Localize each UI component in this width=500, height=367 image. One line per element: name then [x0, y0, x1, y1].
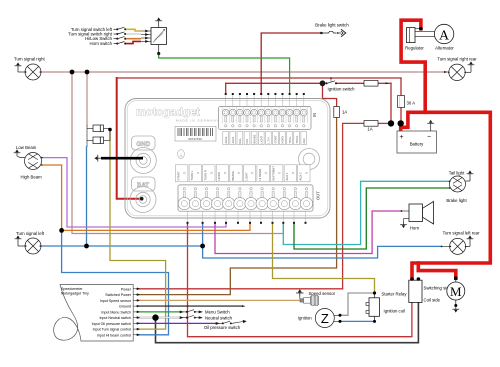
- svg-text:Brake light: Brake light: [446, 198, 467, 203]
- m-unit body: [125, 99, 330, 219]
- m-button input leads: [141, 30, 151, 42]
- svg-text:L.T.H: L.T.H: [267, 137, 271, 143]
- GND heavy wire: [101, 157, 143, 160]
- GND terminal: [130, 136, 156, 174]
- wire: magenta horn: [215, 211, 402, 254]
- wire: switched power brown from fuse down to bubble: [137, 118, 337, 295]
- svg-text:Starter Relay: Starter Relay: [381, 292, 407, 297]
- wire: thick red starter motor branch: [418, 263, 456, 278]
- svg-text:START: START: [274, 135, 278, 144]
- lamp: head light low/high: [14, 145, 43, 180]
- svg-text:Input Neutral switch: Input Neutral switch: [99, 316, 131, 320]
- regulator: [405, 27, 434, 51]
- wire: olive ignition coil: [273, 223, 375, 293]
- fuse 1A vertical: [334, 107, 340, 118]
- wire: cyan tail light: [283, 181, 449, 244]
- svg-text:AUX: AUX: [302, 138, 306, 144]
- svg-text:TRN R: TRN R: [295, 135, 299, 143]
- wire: battery bus upper dark red y78: [117, 77, 401, 79]
- svg-text:Power: Power: [121, 287, 132, 291]
- svg-text:Input Hi beam control: Input Hi beam control: [97, 333, 131, 337]
- wire: 1A fuse to speedo power red: [343, 123, 364, 288]
- svg-text:OUT: OUT: [316, 191, 321, 200]
- svg-text:HORN: HORN: [217, 172, 221, 180]
- wire: ignition switched bus y83.3: [226, 82, 323, 84]
- svg-text:Speedometer: Speedometer: [61, 287, 83, 291]
- wire: blue from Z to coil minus: [340, 320, 375, 322]
- starter relay: [381, 277, 451, 303]
- svg-text:Horn: Horn: [410, 226, 420, 231]
- oil pressure switch: [216, 320, 246, 324]
- lamp: turn signal left rear: [441, 231, 480, 255]
- speed sensor: [296, 289, 336, 305]
- junction dot turn-right bus B: [85, 70, 90, 75]
- wire: hi beam control blue tap: [62, 230, 169, 334]
- lamp: turn signal right front: [14, 57, 45, 81]
- svg-text:TURN L: TURN L: [190, 170, 194, 181]
- wire: after ignition switch to fuse: [336, 82, 364, 84]
- svg-text:IGN: IGN: [245, 139, 249, 144]
- wire: drop through 30A fuse: [400, 78, 402, 96]
- junction dot turn-right bus A: [70, 70, 75, 75]
- svg-text:Horn switch: Horn switch: [90, 41, 113, 46]
- fuse ignition: [364, 81, 378, 87]
- wire: ground black row: [137, 305, 242, 307]
- svg-text:Ground: Ground: [119, 305, 131, 309]
- switch symbols for cluster: [114, 27, 126, 44]
- wire: bus to BAT terminal: [117, 78, 142, 199]
- svg-text:M: M: [450, 284, 462, 299]
- svg-text:HORN: HORN: [281, 136, 285, 144]
- wire: thick battery red: [401, 112, 491, 279]
- wire: green brake light: [294, 188, 450, 249]
- svg-text:Input Oil pressure switch: Input Oil pressure switch: [92, 322, 131, 326]
- svg-text:Regulator: Regulator: [405, 46, 424, 51]
- svg-text:KILL: KILL: [238, 138, 242, 144]
- IN terminal block: [219, 93, 318, 145]
- junction dot ignition bus: [320, 80, 326, 86]
- svg-text:motogadget: motogadget: [136, 107, 200, 119]
- battery: [397, 120, 437, 153]
- svg-text:Neutral switch: Neutral switch: [205, 315, 233, 320]
- svg-text:Coil side: Coil side: [424, 298, 441, 303]
- lamp: turn signal left front: [15, 231, 45, 254]
- alternator: [434, 24, 454, 50]
- svg-text:High Beam: High Beam: [21, 175, 43, 180]
- wire: brake light switch dark red: [261, 33, 320, 94]
- wire: gray from spark Z to coil: [340, 293, 375, 315]
- fuse 1A horizontal: [364, 121, 378, 127]
- svg-text:Turn signal left rear: Turn signal left rear: [443, 231, 480, 236]
- menu switch: [180, 310, 202, 313]
- wire: blue diode2 feed: [86, 147, 88, 246]
- svg-text:TRN L: TRN L: [288, 135, 292, 143]
- svg-text:GND: GND: [136, 141, 150, 148]
- svg-text:Input Turn signal control: Input Turn signal control: [93, 328, 132, 332]
- wire: speed sensor tan: [137, 299, 300, 301]
- svg-text:TURN R: TURN R: [204, 170, 208, 181]
- svg-text:BRAKE: BRAKE: [231, 171, 235, 181]
- svg-text:START: START: [177, 171, 181, 180]
- svg-text:ᛦ: ᛦ: [179, 151, 182, 158]
- svg-text:1A: 1A: [342, 110, 347, 115]
- junction dot high-beam tap: [59, 228, 64, 233]
- wire: neutral switch white row: [137, 317, 180, 319]
- svg-text:LIGHT: LIGHT: [259, 135, 263, 143]
- horn: [400, 202, 433, 231]
- colored switch wires: [126, 29, 141, 43]
- svg-text:00747330: 00747330: [188, 137, 202, 141]
- right screw circle: [299, 149, 320, 170]
- wire: turn signal right pale red bus y72: [41, 71, 449, 73]
- wire: blue up to m-unit pin: [202, 223, 204, 246]
- wire: thick red alternator branch: [401, 20, 425, 112]
- svg-text:Ignition coil: Ignition coil: [384, 309, 406, 314]
- junction dot turn-left split: [200, 244, 205, 249]
- wire: turn-right feed to diode column (pale top): [86, 72, 88, 125]
- barcode: [175, 127, 216, 142]
- wire: turn left blue front: [41, 245, 203, 247]
- wire: drop to battery junction left: [390, 83, 392, 121]
- diodes: [87, 125, 112, 147]
- wire: m-button green output: [159, 54, 290, 95]
- neutral switch: [152, 314, 158, 320]
- fuse 30A: [398, 96, 405, 108]
- svg-text:Switched Power: Switched Power: [105, 293, 132, 297]
- svg-text:Ignition switch: Ignition switch: [328, 86, 356, 91]
- svg-text:HI BEAM: HI BEAM: [258, 168, 262, 180]
- svg-text:Motorgadget Tiny: Motorgadget Tiny: [61, 291, 89, 295]
- svg-text:MADE IN GERMANY: MADE IN GERMANY: [176, 119, 220, 123]
- svg-text:Turn signal right: Turn signal right: [14, 57, 45, 62]
- svg-text:Input Menu Switch: Input Menu Switch: [101, 310, 131, 314]
- wire: relay red return: [188, 223, 412, 337]
- junction dot turn-left to diode: [84, 244, 89, 249]
- svg-text:−: −: [427, 134, 431, 141]
- BAT terminal: [130, 177, 156, 213]
- wire: ignition 1A fuse feed: [323, 83, 337, 106]
- battery junction dots: [388, 120, 394, 126]
- wire: bus branch into m-unit pin1: [225, 83, 227, 94]
- svg-text:Alternator: Alternator: [435, 46, 454, 51]
- svg-text:A: A: [439, 28, 450, 43]
- svg-text:Battery: Battery: [410, 142, 424, 147]
- speedometer bubble: [54, 285, 140, 342]
- svg-text:INSTRMNT: INSTRMNT: [272, 166, 276, 181]
- svg-text:Turn signal left: Turn signal left: [16, 231, 45, 236]
- m-button box: [151, 17, 167, 55]
- wire: blue to rear left lamp: [203, 246, 442, 258]
- svg-text:+: +: [400, 134, 404, 141]
- svg-text:Tail light: Tail light: [449, 171, 465, 176]
- svg-text:Ignition: Ignition: [298, 315, 312, 320]
- wire: turn-right vertical to lower cluster: [72, 72, 283, 234]
- lamp: tail/brake: [446, 170, 473, 203]
- svg-text:Z: Z: [321, 311, 329, 326]
- wire: relay black return: [156, 302, 419, 342]
- svg-text:AUX1: AUX1: [231, 136, 235, 143]
- wire: olive turn signal control from diodes: [110, 130, 166, 330]
- wire: speedo power row: [137, 288, 343, 290]
- svg-text:Oil pressure switch: Oil pressure switch: [204, 325, 241, 330]
- svg-text:Brake light switch: Brake light switch: [315, 23, 349, 28]
- svg-text:Low Beam: Low Beam: [16, 145, 37, 150]
- OUT label strip (middle): [176, 165, 311, 182]
- spark plug Z: [298, 309, 342, 328]
- svg-text:AUX 2: AUX 2: [299, 172, 303, 181]
- wire: orange high beam: [43, 165, 250, 230]
- svg-text:BRAKE: BRAKE: [252, 134, 256, 143]
- ignition coil: [366, 291, 405, 323]
- svg-text:AUX 1: AUX 1: [285, 172, 289, 181]
- starter motor M: [447, 276, 465, 312]
- lamp: turn signal right rear: [437, 57, 477, 81]
- handlebar switch cluster labels: [68, 27, 113, 46]
- svg-text:Menu Switch: Menu Switch: [205, 310, 230, 315]
- svg-text:Input Speed sensor: Input Speed sensor: [100, 299, 132, 303]
- ground row arrow: [242, 305, 246, 307]
- wire: oil pressure purple row: [137, 322, 216, 324]
- svg-text:AUX2: AUX2: [224, 136, 228, 143]
- svg-text:LIGHT: LIGHT: [244, 172, 248, 181]
- wire: violet low beam: [43, 158, 226, 227]
- bluetooth mark: [178, 150, 185, 159]
- svg-text:30 A: 30 A: [407, 101, 416, 106]
- svg-text:Turn signal right rear: Turn signal right rear: [437, 57, 477, 62]
- svg-text:1A: 1A: [367, 127, 372, 132]
- svg-text:IN: IN: [312, 113, 317, 117]
- OUT terminal block: [178, 185, 321, 224]
- wire: menu switch green row: [137, 311, 180, 313]
- svg-text:BAT: BAT: [137, 182, 149, 189]
